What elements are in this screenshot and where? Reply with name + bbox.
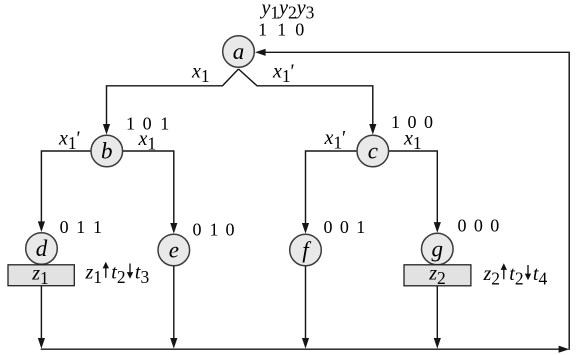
arrowhead into node c <box>369 124 376 135</box>
svg-text:001: 001 <box>324 217 366 237</box>
arrowhead into node d <box>38 221 45 232</box>
svg-text:c: c <box>368 139 378 164</box>
svg-text:010: 010 <box>193 220 235 240</box>
arrowhead feedback into node a <box>255 49 266 56</box>
svg-text:b: b <box>101 139 113 164</box>
wire g to bottom bus <box>436 286 438 343</box>
arrowhead d to bus <box>38 338 45 349</box>
svg-text:d: d <box>36 236 48 261</box>
node f <box>290 234 322 266</box>
output box z2 <box>404 265 471 286</box>
arrowhead f to bus <box>302 338 309 349</box>
arrowhead into node b <box>103 124 110 135</box>
arrowhead e to bus <box>170 338 177 349</box>
wire d to bottom bus <box>40 286 42 343</box>
arrowhead into node f <box>302 223 309 234</box>
wire bottom bus <box>41 348 563 350</box>
arrowhead into node e <box>170 223 177 234</box>
output box z1 <box>8 265 74 286</box>
wire b to d (x1') <box>41 151 91 227</box>
node c <box>357 135 389 167</box>
node g <box>422 233 454 265</box>
wire feedback riser and top return <box>260 52 569 350</box>
wire branch a to b (x1) <box>107 69 239 130</box>
svg-text:a: a <box>233 39 245 64</box>
node a <box>223 36 255 68</box>
svg-text:011: 011 <box>60 217 102 237</box>
svg-text:101: 101 <box>126 113 169 133</box>
arrowhead bus to right riser <box>559 346 570 353</box>
wire b to e (x1) <box>123 151 174 229</box>
svg-text:g: g <box>432 237 444 262</box>
node e <box>158 234 190 266</box>
wire e to bottom bus <box>173 266 175 343</box>
svg-text:000: 000 <box>458 216 500 236</box>
node d <box>26 233 58 265</box>
wire c to f (x1') <box>306 151 358 229</box>
label z1 up t2 down t3 <box>85 262 150 288</box>
node b <box>91 135 123 167</box>
wire branch a to c (x1') <box>239 69 373 130</box>
arrowhead g to bus <box>434 338 441 349</box>
svg-text:e: e <box>169 238 179 263</box>
wire f to bottom bus <box>305 266 307 343</box>
arrowhead into node g <box>434 222 441 233</box>
svg-text:110: 110 <box>258 20 304 40</box>
label z2 up t2 down t4 <box>483 263 548 289</box>
wire c to g (x1) <box>389 151 438 228</box>
